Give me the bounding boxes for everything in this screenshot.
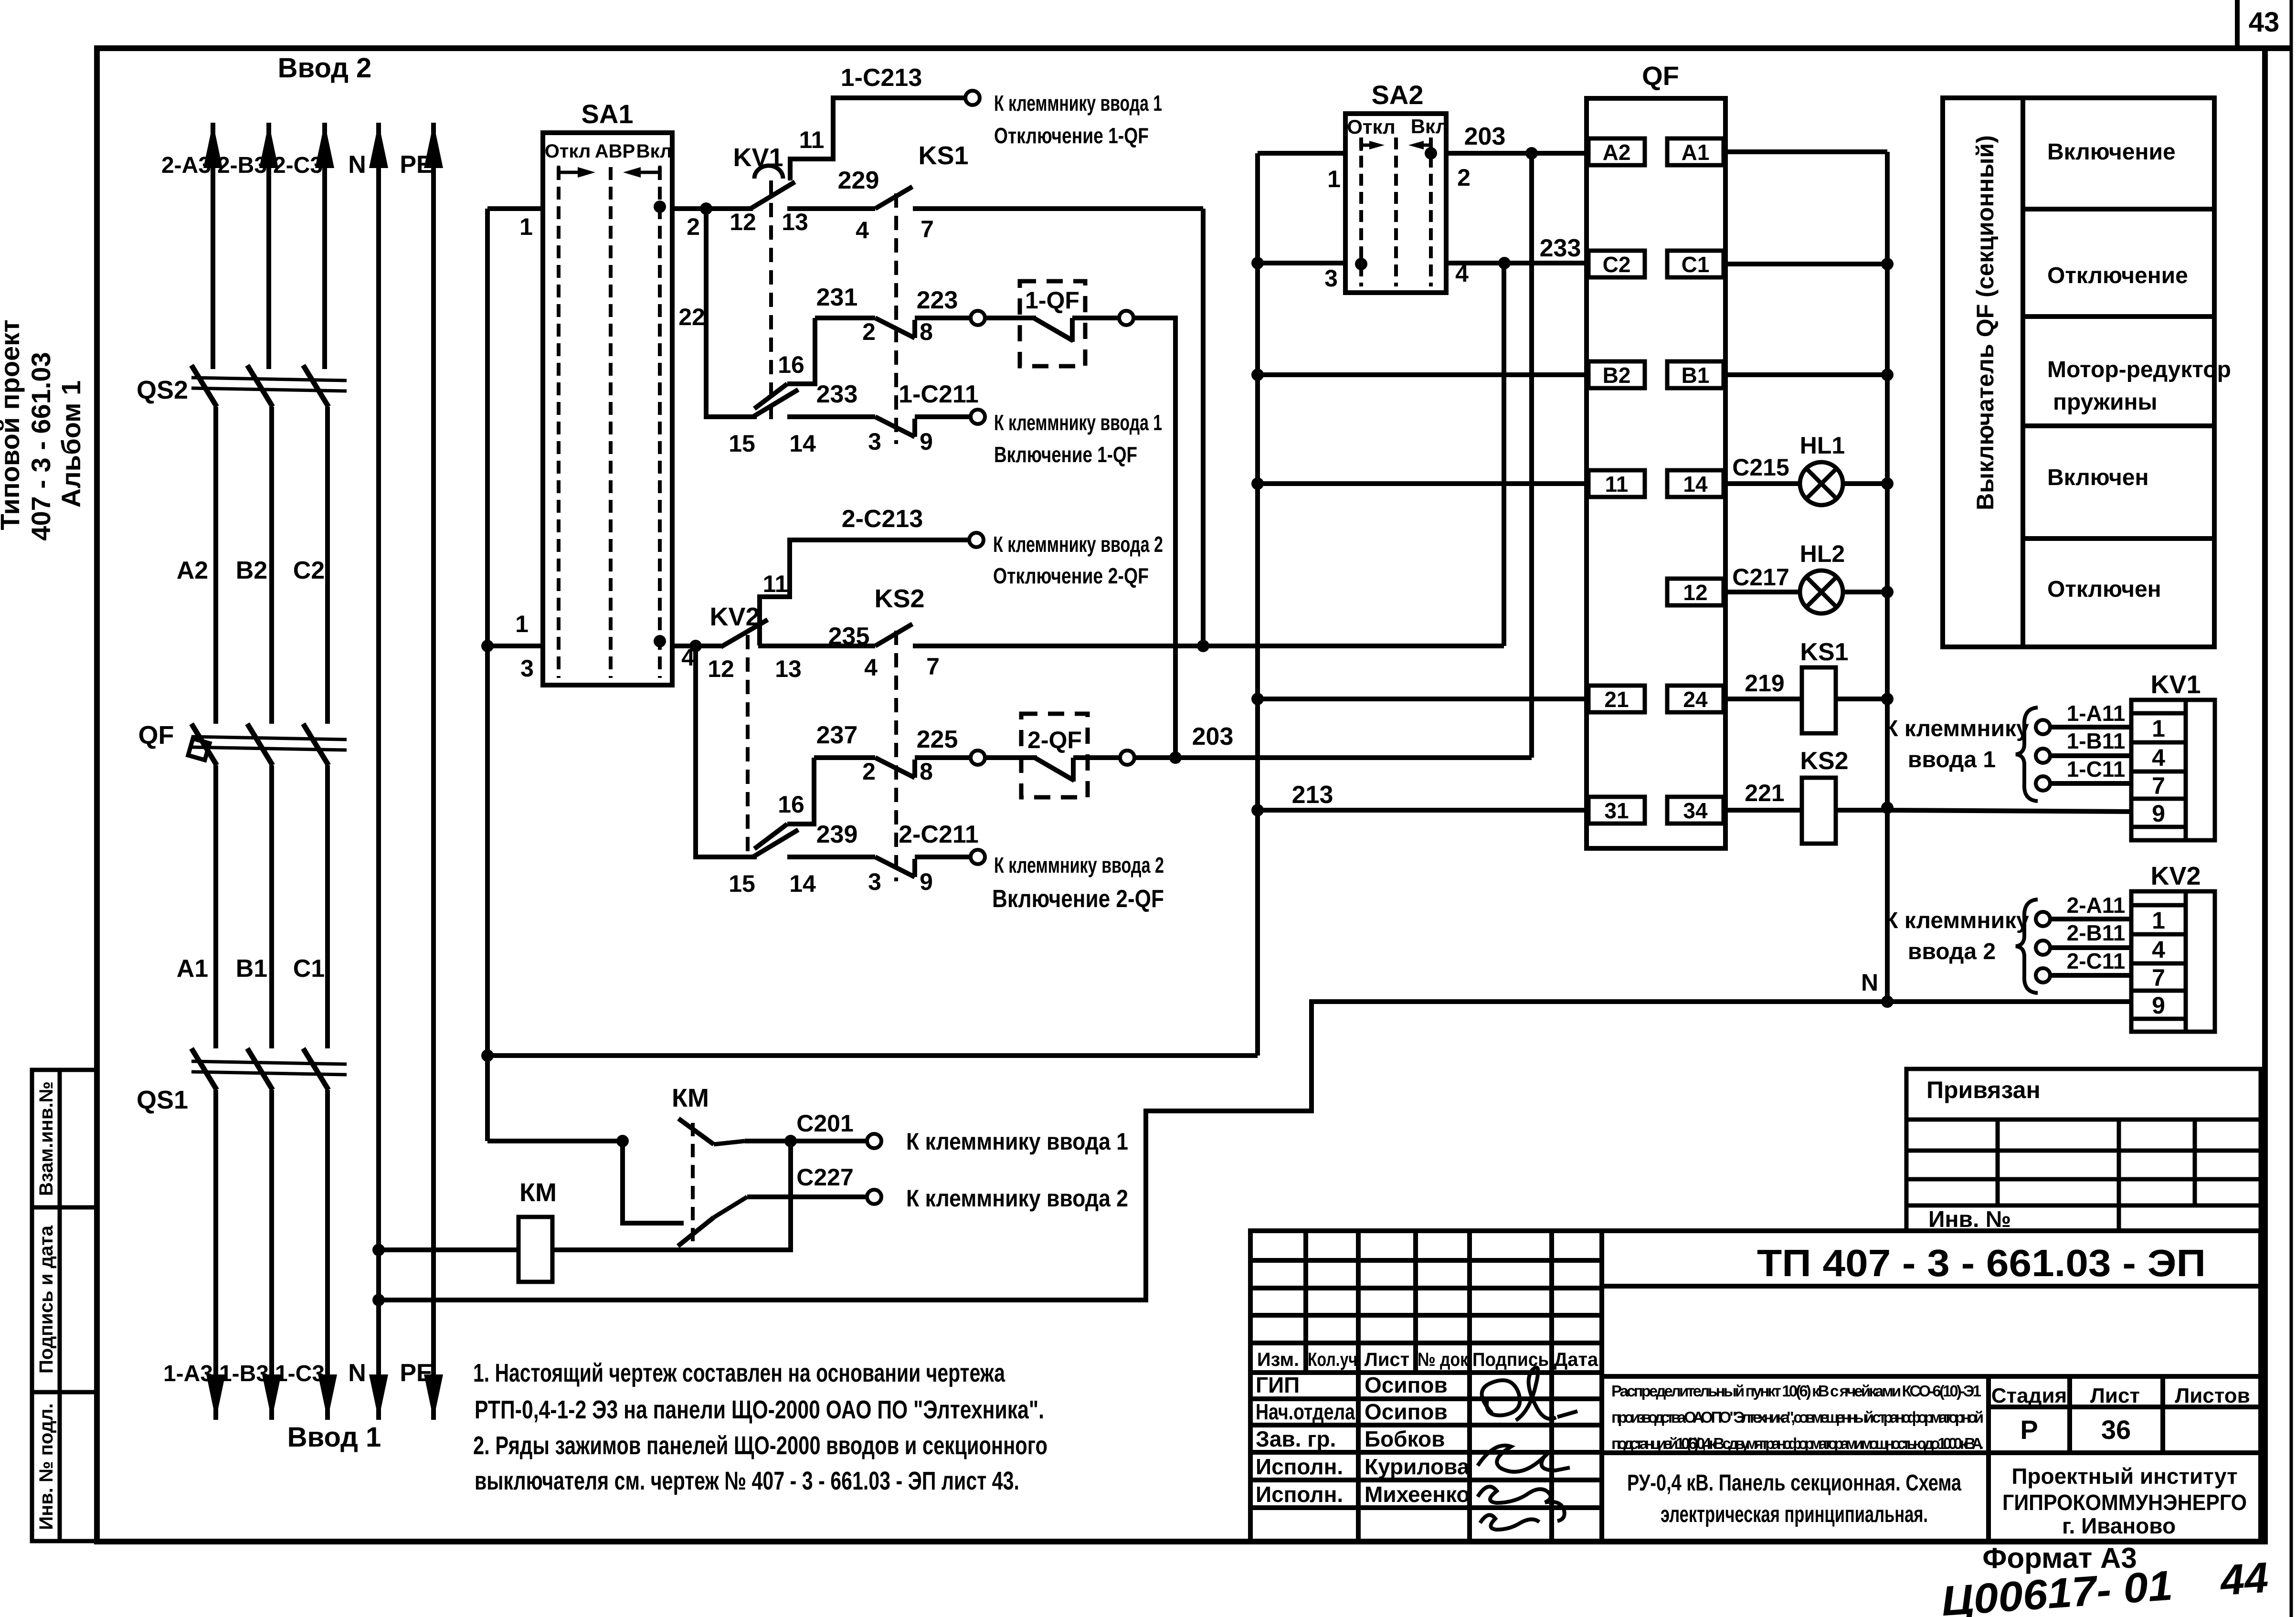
svg-text:ввода 2: ввода 2	[1908, 939, 1996, 964]
terminal C201	[867, 1134, 881, 1148]
svg-text:2-A11: 2-A11	[2067, 893, 2126, 918]
svg-text:C2: C2	[293, 557, 325, 584]
svg-text:1-A3: 1-A3	[163, 1361, 213, 1386]
svg-text:QS2: QS2	[137, 376, 188, 404]
svg-text:2-B3: 2-B3	[217, 153, 267, 178]
svg-text:Включен: Включен	[2047, 465, 2148, 490]
svg-text:237: 237	[816, 721, 858, 749]
arrowheads	[203, 123, 222, 168]
wire 213 bus to 31	[1258, 808, 1588, 813]
svg-text:36: 36	[2101, 1415, 2131, 1445]
svg-text:SA1: SA1	[582, 99, 634, 129]
wire C1 to right bus	[1724, 262, 1887, 266]
svg-text:1: 1	[1327, 166, 1341, 192]
wire bus to SA2 pin3	[1258, 261, 1345, 265]
wire 1-QF output down to 203	[1133, 318, 1175, 756]
svg-text:КМ: КМ	[672, 1084, 709, 1112]
svg-text:15: 15	[729, 430, 755, 457]
node feed junction	[481, 1049, 494, 1062]
svg-text:1. Настоящий чертеж составлен: 1. Настоящий чертеж составлен на основан…	[473, 1359, 1005, 1387]
svg-text:34: 34	[1683, 798, 1708, 823]
wire net 11 to 2-C213	[760, 540, 969, 645]
relay contact KS1 (3-9)	[875, 417, 915, 437]
neutral line N	[376, 123, 381, 1420]
svg-text:К клеммнику ввода 1: К клеммнику ввода 1	[994, 91, 1162, 116]
svg-text:C1: C1	[293, 955, 325, 983]
wire common bus	[1255, 153, 1260, 1056]
terminal box 21	[1588, 686, 1645, 712]
svg-text:1-B3: 1-B3	[219, 1361, 269, 1386]
svg-text:Привязан: Привязан	[1926, 1077, 2041, 1103]
svg-text:233: 233	[1540, 234, 1581, 262]
svg-text:Отключение 2-QF: Отключение 2-QF	[993, 563, 1149, 588]
svg-text:4: 4	[2152, 936, 2165, 963]
wire riser 22 to contact 15	[706, 209, 757, 417]
svg-text:Взам.инв.№: Взам.инв.№	[36, 1081, 57, 1196]
wire left control riser	[485, 209, 490, 1141]
svg-text:2: 2	[1457, 164, 1471, 191]
svg-text:12: 12	[730, 209, 756, 235]
svg-text:подстанцией 10(6)/0,4 кВ с дву: подстанцией 10(6)/0,4 кВ с двумя трансфо…	[1611, 1435, 1984, 1452]
wire 221 to KV1 pin9	[1887, 810, 2131, 812]
wire 237 row	[814, 755, 875, 760]
svg-text:К клеммнику ввода 2: К клеммнику ввода 2	[993, 532, 1163, 557]
wire bus bottom to SA1 feed	[487, 1053, 1258, 1058]
svg-text:Альбом 1: Альбом 1	[56, 380, 86, 508]
svg-text:C2: C2	[1603, 252, 1631, 277]
svg-text:KS1: KS1	[918, 141, 968, 170]
sidebar frame boxes	[32, 1070, 97, 1541]
svg-text:21: 21	[1604, 687, 1629, 712]
svg-text:31: 31	[1604, 798, 1629, 823]
svg-text:Стадия: Стадия	[1991, 1384, 2067, 1407]
svg-text:7: 7	[2152, 964, 2165, 991]
wire bus to SA2 pin1	[1258, 151, 1345, 156]
svg-text:2-QF: 2-QF	[1027, 727, 1082, 753]
wire 203 row	[1134, 755, 1532, 760]
svg-text:QF: QF	[138, 721, 174, 750]
svg-text:14: 14	[789, 430, 816, 457]
contact 16 step (KV1)	[754, 384, 787, 409]
svg-text:1-C3: 1-C3	[275, 1361, 325, 1386]
node 233 riser junction	[1197, 640, 1209, 652]
KS1 linkage dashed line	[894, 193, 898, 444]
svg-text:Осипов: Осипов	[1365, 1399, 1448, 1424]
svg-text:9: 9	[2152, 800, 2165, 827]
wire C227	[747, 1194, 868, 1199]
svg-text:Откл: Откл	[1347, 116, 1395, 138]
svg-text:C201: C201	[796, 1110, 854, 1137]
terminal 1-C211	[971, 410, 985, 424]
svg-text:11: 11	[799, 127, 825, 153]
svg-text:ввода 1: ввода 1	[1908, 747, 1996, 772]
wire SA1 pin4 to KV2	[672, 644, 722, 648]
terminal 1-A11	[2036, 720, 2050, 734]
relay coil KS1	[1802, 667, 1836, 733]
wire bus to B2	[1258, 372, 1587, 377]
svg-text:16: 16	[778, 791, 804, 818]
mode switch SA1	[543, 133, 672, 685]
svg-text:B1: B1	[236, 955, 267, 983]
svg-text:44: 44	[2218, 1554, 2270, 1605]
node SA1 pin4 junction	[689, 640, 702, 652]
svg-text:24: 24	[1683, 687, 1708, 712]
KS2 linkage dashed line	[894, 631, 898, 881]
wire 235 row	[758, 644, 875, 648]
svg-text:7: 7	[921, 216, 934, 243]
wire 231 row	[815, 316, 875, 320]
svg-text:223: 223	[917, 286, 958, 314]
svg-text:1-A11: 1-A11	[2067, 701, 2126, 726]
wire 34 to KS2 coil	[1724, 808, 1802, 813]
svg-text:1-B11: 1-B11	[2067, 729, 2126, 753]
handwritten inventory number	[1940, 1554, 2270, 1617]
relay contact KS1 (4-7)	[875, 187, 912, 209]
svg-text:16: 16	[778, 351, 804, 378]
svg-text:2-A3: 2-A3	[161, 153, 211, 178]
svg-text:203: 203	[1464, 123, 1506, 150]
wire 225	[915, 755, 971, 760]
wire 2-C211	[915, 855, 971, 859]
svg-text:Включение 2-QF: Включение 2-QF	[992, 885, 1164, 913]
svg-text:К клеммнику ввода 1: К клеммнику ввода 1	[994, 410, 1162, 435]
terminal 2-A11	[2036, 912, 2050, 926]
wire 223	[915, 316, 971, 320]
terminal 223	[971, 311, 985, 325]
page number box 43	[2235, 0, 2240, 48]
svg-text:HL2: HL2	[1800, 540, 1845, 567]
svg-text:12: 12	[708, 655, 734, 682]
terminal block KV1	[2131, 700, 2215, 840]
brace KV1 group	[2016, 708, 2038, 801]
wire 235 row right	[913, 644, 1203, 648]
svg-text:ГИПРОКОММУНЭНЕРГО: ГИПРОКОММУНЭНЕРГО	[2002, 1490, 2247, 1515]
border top extension to page edge	[2265, 45, 2291, 51]
relay contact KS2 (3-9)	[875, 857, 915, 877]
node SA1 pin1/3 junction	[481, 640, 494, 652]
svg-text:9: 9	[2152, 992, 2165, 1019]
terminal 225	[971, 750, 985, 765]
svg-text:3: 3	[868, 428, 881, 455]
disconnector QS2 (3-pole)	[191, 365, 347, 407]
svg-text:2. Ряды зажимов панелей ЩО-20: 2. Ряды зажимов панелей ЩО-2000 вводов и…	[473, 1431, 1047, 1460]
svg-text:13: 13	[775, 655, 802, 682]
svg-text:К клеммнику ввода 2: К клеммнику ввода 2	[994, 853, 1164, 877]
svg-text:239: 239	[816, 821, 858, 848]
control switch SA2	[1345, 114, 1446, 293]
svg-text:22: 22	[678, 304, 705, 330]
wire KM lower branch	[623, 1141, 684, 1223]
svg-text:KV2: KV2	[709, 602, 760, 631]
wire coil to C201 node	[552, 1141, 791, 1250]
svg-text:N: N	[1861, 969, 1878, 996]
svg-text:11: 11	[763, 571, 788, 597]
wire N to KV2 pin9	[1887, 999, 2131, 1004]
terminal 1-B11	[2036, 749, 2050, 763]
wire 233 row to C2 riser	[1203, 644, 1504, 648]
svg-text:Мотор-редуктор: Мотор-редуктор	[2047, 357, 2231, 382]
svg-text:1-C211: 1-C211	[899, 380, 979, 408]
relay contact KS2 (4-7)	[875, 624, 912, 646]
svg-text:B2: B2	[1603, 363, 1631, 388]
svg-text:1: 1	[515, 611, 529, 637]
svg-text:Бобков: Бобков	[1365, 1427, 1445, 1451]
wire 12 to HL2	[1724, 590, 1800, 594]
svg-text:Включение: Включение	[2047, 139, 2176, 165]
relay contact KS1 (2-8)	[875, 318, 915, 338]
wire into 1-QF	[985, 316, 1020, 320]
svg-text:АВР: АВР	[595, 141, 635, 162]
svg-text:Отключен: Отключен	[2047, 577, 2161, 602]
terminal block KV2	[2131, 891, 2215, 1032]
svg-text:1-QF: 1-QF	[1025, 287, 1079, 314]
svg-text:2-C211: 2-C211	[899, 821, 979, 848]
node C201 junction	[784, 1135, 797, 1147]
svg-text:233: 233	[816, 380, 858, 408]
wire SA1 pin3 row	[487, 644, 543, 648]
terminal box A2	[1588, 138, 1645, 165]
svg-text:KV2: KV2	[2150, 862, 2201, 890]
svg-text:9: 9	[920, 868, 933, 895]
terminal box 14	[1667, 470, 1724, 497]
svg-text:Осипов: Осипов	[1365, 1373, 1448, 1397]
svg-text:электрическая принципиальная.: электрическая принципиальная.	[1661, 1502, 1928, 1527]
phase line B vertical	[269, 123, 272, 1420]
svg-text:407 - 3 - 661.03: 407 - 3 - 661.03	[26, 352, 56, 540]
svg-text:Исполн.: Исполн.	[1256, 1454, 1343, 1479]
svg-text:N: N	[348, 151, 366, 179]
svg-text:2-C3: 2-C3	[273, 153, 323, 178]
svg-text:PE: PE	[400, 1359, 433, 1387]
svg-text:2-C213: 2-C213	[842, 505, 923, 533]
node 22 junction	[700, 202, 712, 215]
svg-text:К клеммнику: К клеммнику	[1884, 908, 2029, 933]
relay coil KS2	[1802, 778, 1836, 844]
svg-text:A2: A2	[1603, 140, 1631, 165]
wire 1-C211	[915, 414, 971, 419]
svg-text:Изм.: Изм.	[1257, 1349, 1299, 1370]
svg-text:203: 203	[1192, 723, 1234, 750]
info panel Выключатель QF	[1943, 98, 2214, 647]
terminal box 34	[1667, 797, 1724, 824]
svg-text:KS1: KS1	[1800, 638, 1848, 666]
node N line junction lower	[372, 1294, 385, 1306]
terminal after 1-QF	[1119, 311, 1133, 325]
svg-text:225: 225	[917, 726, 958, 753]
terminal 2-C211	[971, 850, 985, 864]
svg-text:A2: A2	[177, 557, 208, 584]
node N to KM coil	[372, 1244, 385, 1256]
svg-text:Лист: Лист	[1365, 1349, 1410, 1370]
terminal C227	[867, 1190, 881, 1204]
wire 203 SA2 pin2 to A2	[1446, 151, 1587, 156]
svg-text:2-C11: 2-C11	[2067, 949, 2126, 973]
wire 239 row	[787, 855, 875, 859]
svg-text:KS2: KS2	[874, 584, 924, 613]
svg-text:выключателя см. чертеж № 407 -: выключателя см. чертеж № 407 - 3 - 661.0…	[475, 1467, 1019, 1495]
svg-text:Выключатель QF (секционный): Выключатель QF (секционный)	[1972, 135, 1999, 510]
svg-text:Отключение: Отключение	[2047, 263, 2188, 288]
QF auxiliary switch strip	[1587, 98, 1725, 848]
svg-text:4: 4	[2152, 744, 2165, 771]
svg-text:производства ОАО ПО "Элтехника: производства ОАО ПО "Элтехника", совмеще…	[1611, 1408, 1984, 1426]
relay contact KV1 (12-13)	[751, 166, 795, 209]
svg-text:Зав. гр.: Зав. гр.	[1256, 1427, 1336, 1451]
svg-text:1-C213: 1-C213	[841, 64, 922, 92]
auxiliary contact 2-QF (dashed box, NC)	[1021, 714, 1088, 797]
terminal 1-C213	[965, 91, 980, 105]
wire 229 row right	[913, 206, 1203, 211]
wire N to coil	[379, 1247, 518, 1252]
wire C201	[745, 1139, 868, 1143]
svg-text:ГИП: ГИП	[1256, 1373, 1300, 1397]
svg-text:B2: B2	[236, 557, 267, 584]
svg-text:Инв. № подл.: Инв. № подл.	[36, 1403, 57, 1530]
node KM branch	[616, 1135, 629, 1147]
svg-text:HL1: HL1	[1800, 432, 1845, 459]
svg-text:Дата: Дата	[1554, 1349, 1598, 1370]
svg-text:219: 219	[1745, 670, 1784, 697]
KM linkage dashed line	[691, 1123, 695, 1247]
wire N return path	[379, 1002, 1887, 1300]
svg-text:KV1: KV1	[2150, 670, 2201, 699]
svg-text:231: 231	[816, 284, 858, 311]
wire 24 to KS1 coil	[1724, 697, 1802, 701]
svg-text:ТП 407 - 3 - 661.03 - ЭП: ТП 407 - 3 - 661.03 - ЭП	[1757, 1242, 2206, 1284]
svg-text:229: 229	[838, 167, 879, 194]
arrowheads	[259, 123, 278, 168]
svg-text:г. Иваново: г. Иваново	[2062, 1513, 2176, 1538]
svg-text:Кол.уч: Кол.уч	[1308, 1349, 1357, 1370]
svg-text:1: 1	[519, 213, 533, 240]
svg-text:Р: Р	[2020, 1415, 2038, 1445]
svg-text:3: 3	[868, 868, 881, 895]
svg-text:КМ: КМ	[519, 1178, 557, 1207]
svg-text:РТП-0,4-1-2 Э3 на панели ЩО-20: РТП-0,4-1-2 Э3 на панели ЩО-2000 ОАО ПО …	[475, 1395, 1044, 1424]
wire 233 row	[787, 414, 875, 419]
svg-text:Типовой проект: Типовой проект	[0, 319, 25, 530]
wire riser 203 to A2	[1529, 153, 1534, 758]
terminal box B1	[1667, 361, 1724, 388]
svg-text:2: 2	[862, 758, 876, 785]
svg-text:1: 1	[2152, 715, 2165, 742]
svg-text:4: 4	[856, 217, 869, 243]
svg-text:Курилова: Курилова	[1365, 1454, 1470, 1479]
svg-text:12: 12	[1683, 580, 1707, 605]
svg-text:KS2: KS2	[1800, 747, 1848, 775]
svg-text:2: 2	[687, 213, 700, 240]
disconnector QS1 (3-pole)	[191, 1048, 347, 1090]
signatures	[1478, 1367, 1577, 1530]
svg-text:QF: QF	[1642, 61, 1679, 91]
svg-text:К клеммнику ввода 1: К клеммнику ввода 1	[906, 1128, 1128, 1155]
wire SA1 pin2 to KV1	[672, 206, 753, 211]
svg-text:Михеенко: Михеенко	[1365, 1482, 1470, 1507]
svg-text:7: 7	[2152, 772, 2165, 799]
svg-text:1: 1	[2152, 907, 2165, 934]
svg-text:C227: C227	[796, 1164, 854, 1191]
terminal box C1	[1667, 251, 1724, 277]
svg-text:QS1: QS1	[137, 1086, 188, 1114]
wire 14 to HL1	[1724, 481, 1800, 486]
wire A1 to right bus	[1724, 149, 1887, 154]
svg-text:Распределительный пункт 10(6): Распределительный пункт 10(6) кВ с ячейк…	[1611, 1382, 1981, 1400]
terminal box 12	[1667, 579, 1724, 605]
svg-text:К клеммнику: К клеммнику	[1884, 716, 2029, 741]
svg-text:пружины: пружины	[2053, 390, 2157, 415]
terminal box 31	[1588, 797, 1645, 824]
node 233 riser top	[1498, 257, 1511, 269]
wire B1 to right bus	[1724, 372, 1887, 377]
circuit breaker QF (3-pole, left power section)	[188, 724, 347, 765]
svg-text:13: 13	[782, 209, 808, 235]
svg-text:A1: A1	[1682, 140, 1710, 165]
svg-text:235: 235	[828, 623, 870, 650]
indicator lamp HL1	[1800, 462, 1843, 505]
svg-text:№ док: № док	[1418, 1349, 1469, 1370]
terminal 2-C11	[2036, 968, 2050, 983]
wire net 11 to 1-C213	[790, 98, 965, 180]
svg-text:К клеммнику ввода 2: К клеммнику ввода 2	[906, 1185, 1128, 1212]
title block	[1250, 1231, 2261, 1541]
wire SA1 pin1 feed	[487, 206, 543, 211]
phase line C vertical	[325, 123, 328, 1420]
svg-text:3: 3	[1324, 265, 1338, 292]
wire bus to 11	[1258, 481, 1588, 486]
terminal 2-B11	[2036, 941, 2050, 955]
relay contact KS2 (2-8)	[875, 758, 915, 778]
protective earth line PE	[431, 123, 436, 1420]
svg-text:B1: B1	[1682, 363, 1710, 388]
wire riser 233 to C2	[1502, 263, 1506, 646]
terminal 2-C213	[969, 533, 984, 547]
svg-text:SA2: SA2	[1372, 80, 1424, 110]
svg-text:C217: C217	[1732, 564, 1789, 591]
wire 233 SA2 pin4 to C2	[1446, 261, 1587, 265]
svg-text:Вкл: Вкл	[636, 141, 672, 162]
wire right bus	[1885, 152, 1890, 1002]
svg-text:14: 14	[1683, 472, 1708, 497]
wire KM contact feed	[487, 1139, 625, 1143]
page edge line right	[2290, 0, 2293, 1617]
svg-text:Откл: Откл	[545, 141, 591, 162]
svg-text:Нач.отдела: Нач.отдела	[1256, 1399, 1355, 1424]
phase line A vertical	[213, 123, 216, 1420]
auxiliary contact 1-QF (dashed box, NC)	[1020, 281, 1085, 366]
terminal box C2	[1588, 251, 1645, 277]
relay contact KV2 (12-13)	[721, 620, 768, 647]
svg-text:1-C11: 1-C11	[2067, 757, 2126, 782]
svg-text:14: 14	[789, 870, 816, 897]
terminal 1-C11	[2036, 776, 2050, 791]
svg-text:Вкл: Вкл	[1411, 115, 1449, 137]
svg-text:Проектный институт: Проектный институт	[2011, 1464, 2237, 1489]
svg-text:KV1: KV1	[733, 143, 783, 172]
svg-text:3: 3	[520, 655, 534, 682]
svg-text:9: 9	[920, 428, 933, 455]
terminal box A1	[1667, 138, 1724, 165]
svg-text:Подпись и дата: Подпись и дата	[36, 1225, 57, 1374]
wire 229 row	[787, 206, 875, 211]
svg-text:221: 221	[1745, 780, 1784, 806]
svg-text:8: 8	[920, 318, 933, 345]
svg-text:Листов: Листов	[2175, 1384, 2250, 1407]
svg-text:Лист: Лист	[2090, 1384, 2140, 1407]
svg-text:Ввод 2: Ввод 2	[278, 53, 372, 84]
svg-text:11: 11	[1605, 472, 1629, 497]
svg-text:A1: A1	[177, 955, 208, 983]
svg-text:Отключение 1-QF: Отключение 1-QF	[994, 123, 1149, 148]
